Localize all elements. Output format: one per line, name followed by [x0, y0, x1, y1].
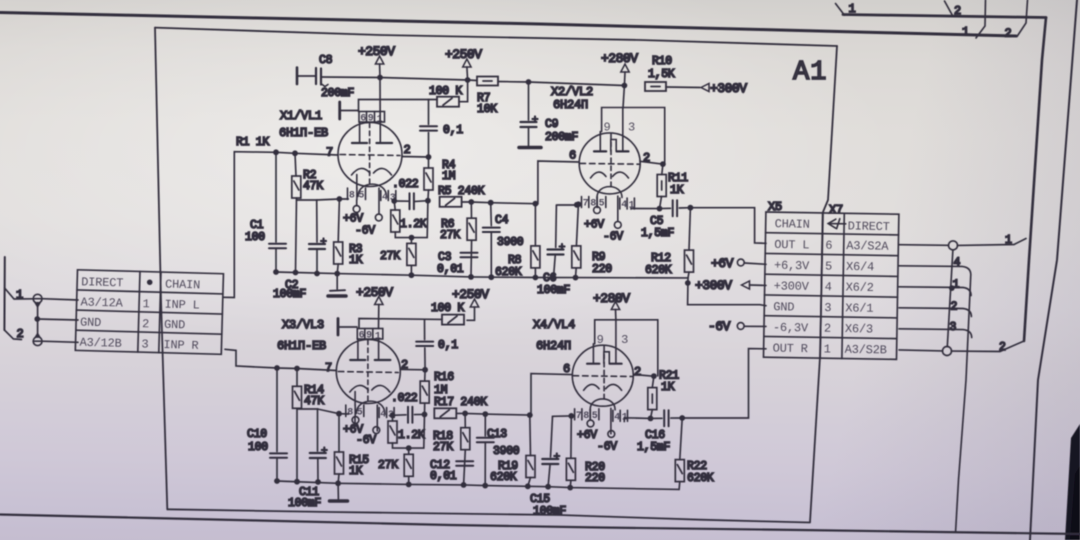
svg-text:X2/VL2: X2/VL2	[551, 85, 593, 99]
svg-text:+6V: +6V	[577, 429, 597, 442]
svg-text:-6V: -6V	[603, 231, 623, 244]
node junction	[377, 75, 383, 81]
svg-text:6Н1П-ЕВ: 6Н1П-ЕВ	[279, 126, 328, 140]
svg-text:X6/4: X6/4	[846, 260, 874, 274]
wire +250V no3 down into X3 pin1	[378, 305, 380, 329]
connector jack OUT R	[943, 347, 952, 356]
svg-text:A1: A1	[793, 58, 827, 88]
wire R17 to R19 node	[456, 413, 530, 415]
heater terminal -6V X4	[608, 431, 615, 438]
svg-text:1,5K: 1,5K	[648, 68, 675, 81]
svg-text:100mF: 100mF	[288, 497, 321, 510]
connector jack OUT L	[949, 241, 958, 250]
svg-text:1K: 1K	[349, 254, 363, 267]
svg-text:620K: 620K	[495, 266, 522, 279]
wire OUT L row to jack	[899, 244, 948, 247]
svg-text:6Н1П-ЕВ: 6Н1П-ЕВ	[277, 339, 326, 353]
node junction C13 top	[482, 411, 488, 417]
capacitor C11 100mF	[337, 483, 339, 499]
wire OUT L to line C	[958, 239, 1027, 246]
svg-text:2: 2	[142, 317, 149, 331]
frame: schematic border A1	[155, 28, 837, 46]
svg-text:4: 4	[954, 257, 961, 270]
svg-text:3: 3	[950, 321, 957, 334]
svg-text:A3/S2B: A3/S2B	[845, 343, 887, 358]
capacitor (cathode bypass upper)	[309, 239, 326, 250]
svg-text:C8: C8	[319, 54, 333, 67]
svg-text:GND: GND	[80, 315, 101, 330]
wire: R14 jog to bypass cap	[297, 409, 318, 451]
resistor R15 1K	[338, 414, 340, 452]
svg-text:1.2K: 1.2K	[400, 218, 427, 231]
node junctions on upper bus	[273, 269, 279, 275]
wire: R5 node up to X2 grid pin 6	[535, 161, 579, 204]
node junction R8 top	[533, 201, 539, 207]
svg-text:+300V: +300V	[695, 278, 732, 293]
svg-text:X3/VL3: X3/VL3	[282, 318, 324, 332]
svg-text:C13: C13	[487, 428, 507, 441]
wire +6,3V row elbow	[899, 266, 971, 275]
node junction R4 top	[426, 154, 432, 160]
capacitor C6 100mF	[555, 205, 558, 247]
capacitor C15 100mF	[551, 416, 553, 457]
pin 3 lead to cathode node	[393, 200, 395, 203]
wire GND row elbow	[899, 308, 971, 317]
node junction C4 top	[488, 200, 494, 206]
node 1 hatch on bus B	[976, 0, 986, 38]
svg-text:3: 3	[824, 301, 831, 315]
node 2 hatch input	[4, 330, 21, 340]
capacitor C1 100	[275, 152, 277, 242]
resistor R18 27K	[464, 413, 466, 427]
svg-text:0,01: 0,01	[437, 263, 464, 276]
node junction RC	[425, 198, 431, 204]
wire: X4 pin2 anode out	[634, 375, 651, 377]
node junction C9 top	[526, 79, 532, 85]
node junction gnd	[34, 316, 40, 322]
svg-text:200mF: 200mF	[321, 87, 354, 100]
wire: lower channel ground bus	[277, 481, 679, 489]
heater terminal -6V X3	[373, 427, 380, 434]
node junction on bus	[949, 285, 955, 291]
svg-text:27K: 27K	[380, 250, 400, 263]
svg-text:2: 2	[404, 143, 411, 157]
svg-text:1.2K: 1.2K	[398, 429, 425, 442]
svg-text:X4/VL4: X4/VL4	[533, 318, 575, 332]
power +300V arrow right	[701, 84, 709, 92]
wire: cathode bus X1	[317, 199, 349, 200]
node junction R12 top	[688, 205, 694, 211]
wire: +250V no1 down through pin 1 into anode	[379, 78, 381, 123]
wire: right bus between jacks	[947, 250, 953, 347]
wire grid bar to pin6 lead	[341, 110, 359, 112]
wire +250V no4 down to 100K	[467, 307, 475, 320]
svg-text:100: 100	[248, 441, 268, 454]
svg-text:.022: .022	[391, 392, 418, 405]
svg-text:2: 2	[951, 301, 958, 314]
svg-text:1: 1	[824, 342, 831, 356]
svg-text:C10: C10	[247, 428, 267, 441]
resistor R4 1M	[428, 157, 430, 168]
triode X2/VL2 6N24P	[579, 108, 665, 222]
heater terminal +6V X4	[587, 420, 594, 427]
wire pin1 to C5 node	[631, 208, 660, 211]
svg-text:220: 220	[592, 263, 612, 276]
svg-text:-6,3V: -6,3V	[773, 321, 809, 336]
wire: plug ground link	[37, 303, 39, 337]
svg-text:.022: .022	[392, 178, 419, 191]
connector plug circle 2	[33, 337, 42, 346]
capacitor (cathode bypass lower)	[310, 448, 327, 459]
svg-text:CHAIN: CHAIN	[165, 277, 200, 292]
svg-text:+6V: +6V	[711, 256, 734, 271]
wire: OUT R to table	[682, 349, 766, 418]
grid terminal bar X3	[337, 319, 340, 336]
svg-text:X6/1: X6/1	[845, 301, 873, 315]
wire circle2 to table INP R	[42, 341, 78, 342]
wire: +250V rail from C8 to R7	[321, 77, 477, 81]
wire: top inter-sheet bus B across page	[0, 13, 1016, 37]
svg-text:2: 2	[1005, 27, 1012, 41]
svg-text:27K: 27K	[440, 229, 460, 242]
node junction 27K top	[409, 235, 415, 241]
wire: X4 cathode bus	[553, 415, 575, 417]
svg-text:GND: GND	[164, 318, 185, 333]
svg-text:620K: 620K	[687, 472, 714, 485]
svg-text:10K: 10K	[477, 103, 497, 116]
svg-text:+6V: +6V	[584, 219, 604, 232]
svg-text:CHAIN: CHAIN	[775, 217, 810, 232]
svg-text:DIRECT: DIRECT	[81, 275, 123, 290]
wire: upper channel ground bus	[276, 272, 688, 278]
svg-text:2: 2	[954, 4, 961, 18]
svg-text:1,5mF: 1,5mF	[637, 441, 670, 454]
svg-text:OUT R: OUT R	[773, 342, 808, 357]
node 1 hatch on bus A	[836, 4, 845, 16]
svg-text:1: 1	[849, 2, 856, 16]
svg-text:GND: GND	[773, 300, 794, 314]
connector table X2(left) DIRECT/CHAIN	[75, 270, 223, 355]
node junction 27K no2 top	[406, 445, 412, 451]
heater terminal +6V X3	[352, 417, 359, 424]
resistor R21 1K	[652, 376, 654, 388]
resistor R6 27K	[470, 202, 472, 218]
node junction pin3	[391, 198, 397, 204]
svg-text:+6,3V: +6,3V	[774, 259, 810, 274]
capacitor C5 1,5mF	[660, 207, 671, 209]
svg-text:1,5mF: 1,5mF	[641, 227, 674, 240]
svg-text:6: 6	[825, 239, 832, 253]
wire: INP L row to X1 grid	[223, 152, 338, 298]
svg-text:4: 4	[825, 280, 832, 294]
svg-text:+280V: +280V	[593, 291, 630, 306]
wire +280V no2 down into X4 pin 3	[615, 310, 617, 321]
node junction C6	[574, 202, 580, 208]
svg-text:A3/S2A: A3/S2A	[846, 239, 889, 254]
svg-text:47K: 47K	[303, 180, 323, 193]
node 1 hatch input	[5, 288, 34, 299]
svg-text:3900: 3900	[493, 445, 520, 458]
node junction +280V	[622, 83, 628, 89]
wire: X1 pin2 anode to R4 node	[402, 156, 429, 159]
svg-text:200mF: 200mF	[545, 131, 578, 144]
svg-text:3: 3	[141, 337, 148, 351]
svg-text:620K: 620K	[490, 471, 517, 484]
svg-text:R16: R16	[434, 371, 454, 384]
node junction C16 left	[648, 416, 654, 422]
svg-text:OUT L: OUT L	[774, 238, 809, 253]
svg-text:6: 6	[569, 149, 576, 163]
wire +300V row elbow	[899, 287, 971, 296]
capacitor C3 0,01 in series under R6	[470, 240, 473, 277]
node junction R21 top	[651, 373, 657, 379]
wire 100K right up to rail	[459, 80, 468, 102]
heater terminal +6V X2	[594, 207, 601, 214]
heater terminal -6V X2	[614, 222, 621, 229]
connector plug circle 1	[33, 294, 42, 303]
wire: rail R7 to R10 node	[498, 82, 624, 86]
node junction pin3 X3	[390, 412, 396, 418]
resistor R11 1K	[662, 164, 663, 174]
svg-text:1K: 1K	[349, 465, 363, 478]
node junction bus end	[685, 280, 691, 286]
resistor R12 620K	[689, 208, 690, 250]
svg-text:27K: 27K	[378, 459, 398, 472]
wire: ground bus link to GND row	[688, 278, 766, 306]
capacitor C9 200mF	[528, 82, 530, 120]
svg-text:5: 5	[825, 259, 832, 273]
wire: R10 to +300V arrow	[666, 86, 700, 89]
wire: upper-right bus A	[843, 15, 1046, 18]
resistor R14 47K	[296, 369, 298, 387]
svg-text:X1/VL1: X1/VL1	[280, 109, 322, 123]
svg-text:-6V: -6V	[356, 434, 376, 447]
svg-text:+250V: +250V	[356, 285, 393, 300]
svg-text:A3/12A: A3/12A	[80, 295, 123, 310]
node junction C10 top	[274, 365, 280, 371]
wire R4 bottom to RC node	[427, 190, 430, 201]
capacitor 0,1 upper	[428, 100, 430, 125]
svg-text:100 K: 100 K	[431, 302, 464, 315]
wire circle1 to table INP L	[42, 299, 78, 300]
wire -6,3V row elbow	[899, 329, 972, 338]
wire: screen edge line D	[1030, 0, 1077, 540]
resistor R7 10K	[477, 77, 498, 86]
wire OUT R row to jack	[899, 350, 943, 351]
svg-text:100mF: 100mF	[533, 505, 566, 518]
svg-text:3900: 3900	[497, 236, 524, 249]
svg-text:X7: X7	[829, 203, 843, 217]
svg-text:0,1: 0,1	[443, 124, 463, 137]
triode X3/VL3 6N1P-EV	[336, 329, 400, 432]
svg-text:R10: R10	[652, 55, 672, 68]
node junction R2 top	[292, 150, 298, 156]
svg-text:2: 2	[999, 341, 1006, 354]
svg-text:R1 1K: R1 1K	[236, 136, 269, 149]
svg-text:1K: 1K	[661, 381, 675, 394]
node junction C5 left	[657, 206, 663, 212]
capacitor C12 0,01 in series under R18	[464, 450, 466, 485]
wire: harness down right side	[956, 275, 971, 532]
svg-text:6Н24П: 6Н24П	[553, 98, 588, 112]
svg-text:DIRECT: DIRECT	[848, 219, 890, 234]
node junction R3 top	[337, 196, 343, 202]
svg-text:7: 7	[325, 361, 332, 375]
svg-text:620K: 620K	[645, 264, 672, 277]
node junction C1 top	[273, 149, 279, 155]
svg-text:INP L: INP L	[164, 298, 199, 313]
grid terminal bar X1	[338, 102, 341, 119]
capacitor 0,1 lower	[424, 348, 426, 370]
svg-text:1: 1	[962, 25, 969, 39]
svg-text:+300V: +300V	[710, 81, 747, 96]
resistor R2 47K	[295, 153, 296, 176]
wire R5 to R8 node	[462, 202, 536, 204]
dark photo corner bottom right	[1065, 424, 1080, 540]
wire pin1 to C16 node	[624, 418, 650, 422]
svg-text:2: 2	[824, 322, 831, 336]
wire: right vertical line C from bus A down to OUT R join	[1024, 18, 1046, 342]
capacitor C10 100	[276, 368, 278, 452]
svg-text:220: 220	[585, 472, 605, 485]
resistor R22 620K	[680, 418, 682, 460]
wire 1.2K bottom link lower	[393, 414, 425, 448]
wire: paper edge line L2 along bottom	[0, 515, 1080, 535]
node junction R22 top	[679, 415, 685, 421]
svg-text:1M: 1M	[442, 170, 456, 183]
node junction R19 top	[527, 412, 533, 418]
svg-text:+280V: +280V	[601, 51, 638, 66]
svg-text:+300V: +300V	[774, 279, 810, 294]
wire: +280V node down into pin 3	[623, 86, 624, 109]
svg-text:2: 2	[17, 327, 24, 341]
node junction R16 top	[422, 367, 428, 373]
svg-text:-6V: -6V	[708, 319, 731, 334]
node junction R18 top	[462, 411, 468, 417]
svg-text:7: 7	[326, 146, 333, 160]
svg-text:C9: C9	[545, 118, 559, 131]
svg-text:100mF: 100mF	[537, 284, 570, 297]
node junction R6 top	[468, 199, 474, 205]
svg-text:47K: 47K	[304, 395, 324, 408]
wire grid bar to pin6 lead X3	[340, 326, 358, 328]
resistor R19 620K	[529, 415, 532, 455]
wire: 100K left branch down to pin 6	[359, 100, 438, 112]
heater terminal -6V X1	[375, 214, 382, 221]
wire 1.2K bottom link	[395, 201, 428, 238]
svg-text:1: 1	[953, 279, 960, 292]
heater terminal +6V X1	[353, 206, 360, 213]
resistor R3 1K	[338, 199, 339, 242]
wire: X3 cathode bus	[318, 409, 349, 414]
capacitor C8	[296, 68, 299, 85]
wire: R17 node up to X4 grid pin 6	[530, 374, 572, 416]
resistor 1,2K lower	[392, 415, 394, 421]
resistor R9 220	[576, 204, 578, 246]
wire: OUT L to table	[690, 208, 766, 244]
svg-text:1: 1	[16, 288, 23, 302]
svg-text:+250V: +250V	[358, 44, 395, 59]
svg-text:0,1: 0,1	[438, 339, 458, 352]
node junctions on lower bus	[274, 478, 280, 484]
node 2 hatch on bus A	[945, 1, 953, 16]
node junction R15 top	[336, 411, 342, 417]
wire: INP R row to X3 grid	[225, 349, 337, 370]
resistor 27K lower	[408, 448, 410, 454]
resistor 27K upper	[410, 238, 412, 244]
wire OUT R to line C	[952, 341, 1025, 352]
svg-text:0,01: 0,01	[430, 470, 457, 483]
svg-text:-6V: -6V	[355, 225, 375, 238]
node junction R16 bottom	[422, 412, 428, 418]
svg-text:+250V: +250V	[445, 47, 482, 62]
wire: X2 pin2 anode out	[640, 161, 662, 164]
svg-text:X6/3: X6/3	[845, 322, 873, 336]
resistor R16 1M	[424, 370, 426, 381]
wire: R2 bottom jog to bypass cap	[297, 200, 318, 242]
capacitor C13 3900	[484, 414, 486, 436]
svg-text:1K: 1K	[670, 184, 684, 197]
capacitor C16 1,5mF	[651, 417, 663, 419]
svg-text:INP R: INP R	[163, 338, 198, 353]
resistor 1,2K upper	[394, 201, 395, 210]
svg-text:-6V: -6V	[597, 441, 617, 454]
svg-text:100: 100	[245, 231, 265, 244]
triode X4/VL4 6N24P	[572, 320, 658, 434]
wire: left inter-sheet input bus	[3, 257, 5, 330]
svg-text:100mF: 100mF	[273, 288, 306, 301]
wire: X3 pin2 anode to R16 node	[400, 368, 425, 370]
svg-text:27K: 27K	[433, 441, 453, 454]
svg-text:+250V: +250V	[452, 287, 489, 302]
node 2 hatch on bus B	[1017, 0, 1028, 37]
resistor R8 620K	[534, 204, 536, 246]
svg-text:C4: C4	[495, 214, 509, 227]
node junction	[465, 77, 471, 83]
capacitor C2 100mF	[336, 274, 338, 289]
svg-text:6: 6	[563, 362, 570, 376]
svg-text:6Н24П: 6Н24П	[536, 339, 571, 353]
svg-text:X6/2: X6/2	[846, 281, 874, 295]
node junction R14 top	[294, 366, 300, 372]
triode X1/VL1 6N1P-EV	[338, 112, 402, 215]
node junction cathode X4	[568, 413, 574, 419]
resistor R20 220	[570, 416, 572, 458]
node junction cathode X2	[576, 201, 582, 207]
svg-text:1: 1	[142, 297, 149, 311]
svg-text:2: 2	[634, 365, 641, 379]
wire gnd to table	[37, 319, 78, 320]
capacitor C4 3900	[490, 203, 493, 226]
svg-text:R17 240K: R17 240K	[434, 396, 487, 409]
svg-text:A3/12B: A3/12B	[79, 336, 121, 351]
wire 100K no2 left branch to X3 pin 6	[359, 319, 442, 328]
wire: X2 cathode bus	[557, 203, 578, 206]
node junction R11 top	[660, 161, 666, 167]
svg-text:1: 1	[1005, 234, 1012, 247]
